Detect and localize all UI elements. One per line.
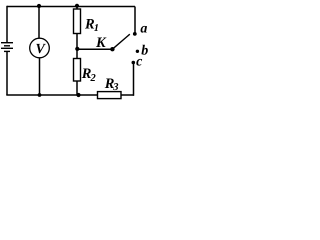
switch K lever (112, 34, 129, 49)
wire right upper to contact a (134, 7, 136, 34)
svg-text:1: 1 (94, 23, 99, 34)
wire left lower (6, 51, 8, 95)
node contact b (136, 50, 139, 53)
node junction between R1 and R2 (75, 47, 79, 51)
wire from contact c down to bottom-right corner (133, 63, 134, 96)
resistor R3 (98, 92, 122, 99)
svg-text:3: 3 (112, 82, 118, 93)
node junction top of voltmeter branch (37, 4, 41, 8)
svg-text:2: 2 (90, 73, 97, 84)
wire bottom (6, 94, 134, 96)
node junction bottom of voltmeter branch (38, 93, 42, 97)
wire voltmeter branch upper (38, 7, 40, 40)
wire to switch pivot (77, 48, 112, 50)
node contact c (132, 61, 136, 65)
resistor R1 (74, 9, 81, 34)
wire top (7, 6, 135, 8)
wire voltmeter branch lower (39, 57, 41, 95)
wire R1-R2 branch (76, 7, 78, 96)
svg-text:a: a (140, 21, 147, 36)
node junction bottom of R2 branch (76, 93, 80, 97)
svg-text:K: K (95, 35, 107, 51)
wire left upper (6, 6, 8, 42)
resistor R2 (74, 59, 81, 82)
battery B1 (1, 43, 13, 52)
voltmeter U1 (30, 38, 50, 58)
svg-text:c: c (136, 54, 143, 69)
node contact a (133, 32, 137, 36)
node junction top of R1 branch (75, 4, 79, 8)
node switch pivot (110, 47, 114, 51)
